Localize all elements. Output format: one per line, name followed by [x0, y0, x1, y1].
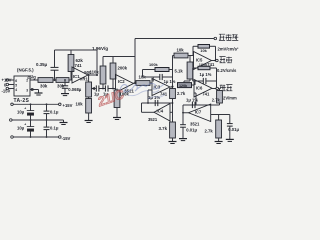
- IC1 output wire: [88, 74, 97, 76]
- feedback right vertical to IC3 output: [172, 70, 174, 87]
- ground 3.7k: [169, 141, 177, 143]
- resistor 62k feedback: [68, 55, 74, 72]
- svg-text:25/g: 25/g: [27, 74, 36, 79]
- feedback resistor 10k IC5: [192, 46, 194, 55]
- terminal velocity: [216, 59, 219, 62]
- IC7 output loop: [183, 112, 189, 114]
- resistor 3.7k to ground: [170, 122, 176, 138]
- svg-text:3.7k: 3.7k: [159, 126, 168, 131]
- svg-text:110k: 110k: [90, 70, 100, 75]
- IC7 lower input wire: [211, 114, 230, 116]
- resistor 100k IC3 feedback: [155, 68, 169, 72]
- resistor 100k IC6 feedback: [198, 66, 210, 69]
- resistor 30k input B: [56, 78, 69, 83]
- capacitor 0.01u left: [182, 112, 184, 114]
- svg-text:0.01μ: 0.01μ: [186, 128, 197, 133]
- ground 100k IC2: [113, 117, 121, 119]
- svg-text:IC4: IC4: [157, 109, 164, 114]
- svg-text:10k: 10k: [200, 48, 207, 53]
- feedback capacitor 1u 1% IC3: [143, 76, 160, 78]
- svg-text:100k: 100k: [199, 62, 208, 67]
- node between 30k resistors: [53, 79, 56, 81]
- vertical IC2 output to acceleration line: [134, 39, 136, 84]
- resistor 120k: [178, 83, 192, 88]
- svg-text:0.1μ: 0.1μ: [50, 109, 59, 114]
- svg-text:1.96V/g: 1.96V/g: [92, 46, 108, 51]
- displacement output: [212, 88, 220, 90]
- resistor 2.7k displacement divider: [219, 89, 221, 91]
- blue watermark script: [120, 85, 145, 93]
- sensor pin 0: [9, 84, 15, 86]
- op-amp IC5 741: [194, 52, 212, 70]
- capacitor 0.068u to ground: [64, 79, 66, 81]
- svg-text:100k: 100k: [149, 62, 158, 67]
- power rail -15V: [13, 136, 59, 138]
- capacitor 1u B: [104, 85, 106, 91]
- svg-text:-15V: -15V: [2, 88, 11, 93]
- resistor 110k: [102, 88, 104, 90]
- svg-text:+: +: [24, 106, 26, 110]
- svg-text:10k: 10k: [76, 102, 84, 107]
- svg-text:6: 6: [15, 79, 17, 83]
- svg-text:10k: 10k: [177, 47, 185, 52]
- svg-text:2.7k: 2.7k: [177, 91, 186, 96]
- svg-text:+: +: [24, 122, 26, 126]
- potentiometer VR1: [88, 75, 90, 82]
- op-amp IC1 741: [72, 67, 88, 83]
- resistor 100k to ground at IC2 input: [116, 89, 118, 91]
- IC4 output loop to cap line: [142, 111, 155, 113]
- ground 2.7k right: [215, 141, 223, 143]
- op-amp IC7 3521: [189, 104, 211, 122]
- terminal acceleration: [214, 37, 217, 40]
- velocity output: [212, 60, 217, 62]
- ground 0.01u right: [226, 138, 234, 140]
- lower loop capacitor 1u 1% with IC4: [142, 102, 173, 104]
- resistor 2.7k IC3 output: [170, 89, 176, 99]
- svg-text:VR1: VR1: [80, 77, 89, 82]
- electrolytic 10u top: [30, 103, 32, 105]
- label jiasudu: [219, 34, 225, 40]
- sensor pin3 wire to ground: [30, 89, 39, 91]
- wire node up to feedback cap: [54, 70, 56, 80]
- sensor pin -15V: [9, 88, 15, 90]
- svg-text:IC7: IC7: [195, 110, 202, 115]
- svg-text:200k: 200k: [118, 65, 128, 70]
- svg-text:-15V: -15V: [62, 136, 71, 141]
- svg-text:2.7k: 2.7k: [212, 97, 221, 102]
- capacitor 0.1u bottom: [46, 120, 48, 127]
- resistor 2.7k to ground right: [218, 115, 220, 121]
- IC2 output node: [134, 82, 137, 84]
- capacitor 0.35u feedback: [51, 66, 59, 68]
- acceleration output wire: [135, 38, 214, 40]
- svg-text:1μ 1%: 1μ 1%: [200, 72, 212, 77]
- feedback top wire: [54, 50, 56, 67]
- wire cap loop to input node: [152, 77, 154, 82]
- resistor 10k below VR1: [88, 97, 90, 99]
- resistor 10k IC5 feedback: [198, 45, 210, 49]
- svg-text:0.1μ: 0.1μ: [50, 125, 59, 130]
- op-amp IC3 741: [152, 79, 170, 96]
- svg-text:1μ 1%: 1μ 1%: [186, 97, 198, 102]
- svg-text:IC6: IC6: [196, 86, 203, 91]
- terminal displacement: [216, 87, 219, 90]
- svg-text:3521: 3521: [148, 117, 158, 122]
- capacitor 0.1u top: [46, 103, 48, 105]
- svg-text:2.7k: 2.7k: [205, 129, 214, 134]
- svg-text:TA-2S: TA-2S: [14, 98, 30, 104]
- IC4 input stub: [170, 111, 173, 113]
- dogleg into 120k: [189, 79, 191, 81]
- svg-text:5: 5: [15, 83, 17, 87]
- svg-text:30k: 30k: [40, 84, 48, 89]
- background scan paper: [0, 0, 240, 180]
- ground VR1 leg: [85, 120, 93, 122]
- svg-text:(NGF.5.): (NGF.5.): [17, 67, 34, 72]
- svg-text:3: 3: [26, 88, 28, 92]
- svg-text:2V/mm: 2V/mm: [223, 95, 237, 100]
- svg-text:120k: 120k: [179, 84, 188, 88]
- svg-text:5.1k: 5.1k: [175, 68, 184, 73]
- power rail 0V: [12, 119, 64, 121]
- link to IC3 lower input: [147, 90, 149, 103]
- svg-text:3521: 3521: [190, 122, 200, 127]
- op-amp IC4 3521: [154, 104, 170, 122]
- svg-text:0.35μ: 0.35μ: [36, 62, 48, 67]
- sensor pin +15V: [9, 79, 15, 81]
- svg-text:741: 741: [160, 91, 168, 96]
- svg-text:+15V: +15V: [2, 78, 12, 83]
- svg-text:0.068μ: 0.068μ: [68, 87, 81, 92]
- capacitor 0.01u right: [229, 115, 231, 124]
- svg-text:0.2V/cm/s: 0.2V/cm/s: [217, 68, 237, 73]
- lower loop capacitor 1u 1% with IC7: [183, 104, 220, 106]
- ground sensor: [35, 92, 43, 94]
- svg-text:IC2: IC2: [118, 79, 125, 84]
- power rail +15V: [13, 103, 59, 105]
- wire VR1 wiper to caps: [95, 88, 98, 90]
- link to IC6 lower input: [195, 93, 197, 105]
- HPF feedback top wire: [103, 56, 135, 58]
- resistor 10k IC5 input: [174, 53, 188, 58]
- feedback capacitor 1u 1% IC6: [193, 80, 204, 82]
- electrolytic 10u bottom: [30, 120, 32, 126]
- svg-text:2mV/cm/s²: 2mV/cm/s²: [218, 46, 240, 51]
- capacitor 1u A: [95, 85, 97, 91]
- svg-text:0.01μ: 0.01μ: [228, 127, 239, 132]
- op-amp IC6 741: [194, 80, 212, 98]
- svg-text:1μ 1%: 1μ 1%: [164, 79, 176, 84]
- wire 30k to IC1: [69, 79, 72, 81]
- accelerometer sensor TA-2S: [14, 76, 30, 96]
- ground mid rail: [60, 122, 68, 124]
- ground 0.068u: [61, 93, 69, 95]
- velocity node vertical to IC5: [172, 56, 174, 87]
- resistor 30k input A: [38, 78, 53, 83]
- feedback right vertical to IC1 output: [96, 50, 98, 75]
- svg-text:+15V: +15V: [63, 103, 73, 108]
- resistor 200k: [112, 88, 114, 90]
- sensor output wire pin2: [30, 79, 38, 81]
- svg-text:741: 741: [75, 63, 83, 68]
- resistor 10k IC3 input: [136, 81, 150, 86]
- resistor 5.1k: [189, 56, 191, 63]
- VR1 wiper arrow: [92, 87, 95, 89]
- IC3 output wire: [170, 86, 173, 88]
- red watermark 21IC: [95, 86, 127, 109]
- svg-text:741: 741: [202, 91, 210, 96]
- svg-text:4: 4: [15, 88, 17, 92]
- ground 0.01u left: [179, 138, 187, 140]
- op-amp IC2 3521: [116, 75, 134, 93]
